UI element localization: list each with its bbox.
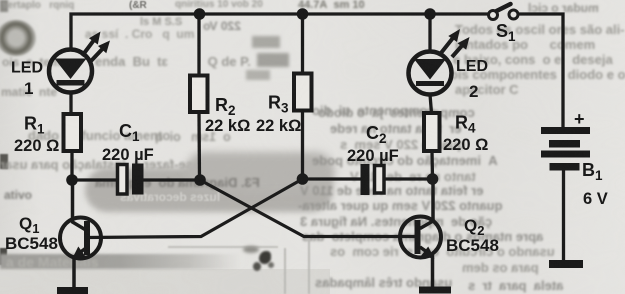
wire R2 bottom to node B: [197, 112, 201, 180]
faint box frame of page (bottom-left): [284, 248, 286, 294]
switch S1: [489, 4, 519, 20]
wire node A to C1: [72, 178, 118, 181]
wire cross-coupling node C to Q1 base: [87, 179, 303, 238]
node A (Q1 collector node): [66, 174, 78, 186]
wire node C to C2: [303, 177, 363, 180]
wire C2 to node D: [384, 177, 433, 180]
transistor Q2: [400, 179, 441, 288]
resistor R3: [294, 74, 312, 111]
resistor R4: [424, 113, 440, 151]
wire R2 top: [197, 14, 200, 76]
resistor R2: [190, 76, 208, 113]
wire C1 to node B: [143, 178, 200, 181]
capacitor C2: [361, 164, 385, 195]
right column mirrored show-through: [318, 106, 475, 119]
wire LED2 to R4: [430, 95, 432, 114]
wire R3 top: [301, 14, 304, 74]
node LED2 top: [424, 8, 436, 20]
LED D1: [49, 32, 110, 93]
grey show-through blob in the middle: [85, 168, 333, 212]
LED D2: [409, 29, 470, 95]
wire R4 to node D: [430, 151, 434, 179]
wire S1 to battery positive corner: [518, 14, 563, 128]
wire battery negative down: [562, 169, 565, 260]
node D (Q2 collector node): [427, 173, 439, 185]
transistor Q1: [60, 180, 101, 288]
node R2 top: [194, 8, 206, 20]
ground Q2 emitter: [419, 287, 451, 294]
capacitor C1: [118, 164, 144, 195]
wire cross-coupling node B to Q2 base: [200, 180, 416, 237]
battery B1: [541, 127, 590, 171]
wire R3 bottom to node C: [301, 111, 304, 180]
ground Q1 emitter: [57, 287, 88, 294]
ground battery negative: [549, 260, 583, 268]
paper noise: [0, 0, 1, 1]
wire LED2 top: [428, 14, 431, 52]
wire LED1 cathode to R1: [69, 93, 72, 115]
ink blotch: [259, 251, 271, 264]
wire R1 to node A: [70, 151, 73, 180]
wire top rail left (V+ rail): [71, 14, 489, 50]
resistor R1: [64, 114, 82, 151]
bottom-left grey band "de Materiais": [0, 254, 240, 269]
node C (R3/C2/Q1-base node): [297, 173, 309, 185]
node R3 top: [297, 8, 309, 20]
node B (R2/C1/Q2-base node): [194, 174, 206, 186]
